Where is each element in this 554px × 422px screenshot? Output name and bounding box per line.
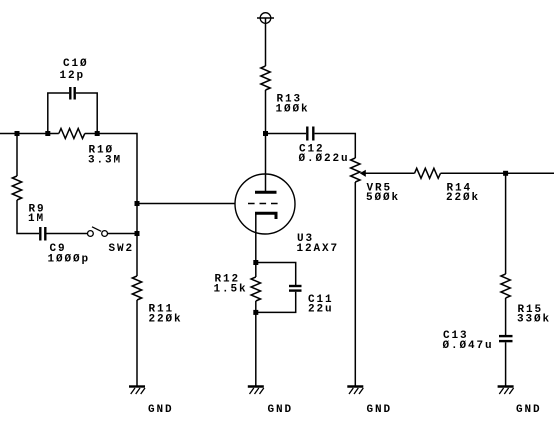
node grid tap — [135, 201, 140, 206]
wire VR5 bottom to ground — [354, 182, 356, 386]
svg-text:22u: 22u — [308, 304, 334, 316]
resistor R10 — [59, 129, 85, 139]
svg-text:GND: GND — [148, 404, 174, 416]
wire terminal to R13 — [265, 18, 267, 66]
wire C11 top lead — [256, 263, 296, 286]
wire R13 to plate node — [265, 90, 267, 134]
node cathode-C11 bottom — [253, 310, 258, 315]
capacitor C10 left lead — [48, 93, 69, 134]
potentiometer VR5 body — [351, 158, 360, 182]
wire plate lead into tube — [265, 134, 267, 193]
tube U3 plate — [255, 191, 277, 194]
ground (R12 branch) — [248, 387, 264, 395]
wire R14 to node — [441, 172, 506, 174]
svg-text:22Øk: 22Øk — [446, 192, 480, 204]
svg-text:1ØØk: 1ØØk — [276, 103, 310, 115]
svg-text:GND: GND — [268, 404, 294, 416]
wire R15 to C13 — [505, 298, 507, 335]
svg-text:Ø.Ø22u: Ø.Ø22u — [299, 153, 350, 165]
wire R12 to ground — [255, 301, 257, 386]
wire SW2 to node — [108, 233, 137, 235]
node input-R9 — [15, 131, 20, 136]
node junction dots — [15, 131, 509, 315]
switch SW2 arm — [92, 227, 101, 232]
svg-text:C1Ø: C1Ø — [63, 58, 89, 70]
wire R11 to ground — [136, 300, 138, 386]
wire input rail left segment — [0, 133, 59, 135]
wire input rail right segment — [85, 134, 137, 204]
node cathode-C11 top — [253, 260, 258, 265]
node R14-R15 — [503, 171, 508, 176]
node C10 left — [45, 131, 50, 136]
capacitor C10 plates — [69, 87, 71, 100]
resistor R13 — [261, 66, 270, 90]
wire C13 to ground — [505, 342, 507, 386]
wire wiper to R14 — [366, 172, 415, 174]
node SW2-R11 — [135, 231, 140, 236]
tube U3 cathode — [255, 213, 276, 219]
svg-text:GND: GND — [367, 404, 393, 416]
resistor R15 — [501, 274, 510, 298]
node C10 right — [95, 131, 100, 136]
ground (C13 branch) — [498, 387, 514, 395]
svg-text:SW2: SW2 — [109, 243, 135, 255]
resistor R12 — [251, 277, 260, 301]
svg-text:GND: GND — [516, 404, 542, 416]
svg-text:22Øk: 22Øk — [149, 314, 183, 326]
svg-text:5ØØk: 5ØØk — [366, 192, 400, 204]
resistor R9 — [12, 176, 21, 200]
node plate-C12 — [263, 131, 268, 136]
capacitor C13 plates — [499, 335, 513, 337]
resistor R11 — [132, 276, 141, 300]
svg-text:3.3M: 3.3M — [88, 155, 122, 167]
potentiometer VR5 wiper arrow — [360, 170, 366, 177]
capacitor C11 plates — [289, 285, 302, 287]
svg-text:1ØØØp: 1ØØØp — [48, 254, 91, 266]
wire grid lead — [137, 203, 235, 205]
switch SW2 contacts — [88, 231, 94, 237]
tube U3 grid dashes — [248, 203, 280, 205]
power terminal symbol — [260, 13, 271, 24]
wire left branch down to R11 — [136, 204, 138, 277]
ground (R11 branch) — [129, 387, 145, 395]
svg-text:33Øk: 33Øk — [517, 313, 551, 325]
wire cathode lead down — [255, 214, 257, 277]
svg-text:12p: 12p — [60, 70, 86, 82]
wire plate node to C12 — [266, 133, 307, 135]
wire C11 bottom lead — [256, 292, 296, 313]
wire R9 branch down — [16, 134, 18, 177]
wire R9 to C9 — [17, 200, 39, 234]
ground (VR5 branch) — [347, 387, 363, 395]
svg-text:1.5k: 1.5k — [214, 284, 248, 296]
ground symbols — [129, 387, 514, 395]
wire node down to R15 — [505, 173, 507, 274]
capacitor C12 plates — [306, 127, 308, 141]
wire C9 to SW2 — [47, 233, 88, 235]
capacitor C10 right lead — [76, 93, 97, 134]
capacitor C9 plates — [39, 227, 41, 241]
tube U3 envelope — [235, 174, 295, 234]
wire output rail — [506, 172, 554, 174]
wire C12 to VR5 top — [315, 134, 356, 159]
resistor R14 — [415, 168, 441, 178]
svg-text:12AX7: 12AX7 — [297, 243, 340, 255]
svg-text:1M: 1M — [28, 213, 45, 225]
svg-text:Ø.Ø47u: Ø.Ø47u — [443, 340, 494, 352]
